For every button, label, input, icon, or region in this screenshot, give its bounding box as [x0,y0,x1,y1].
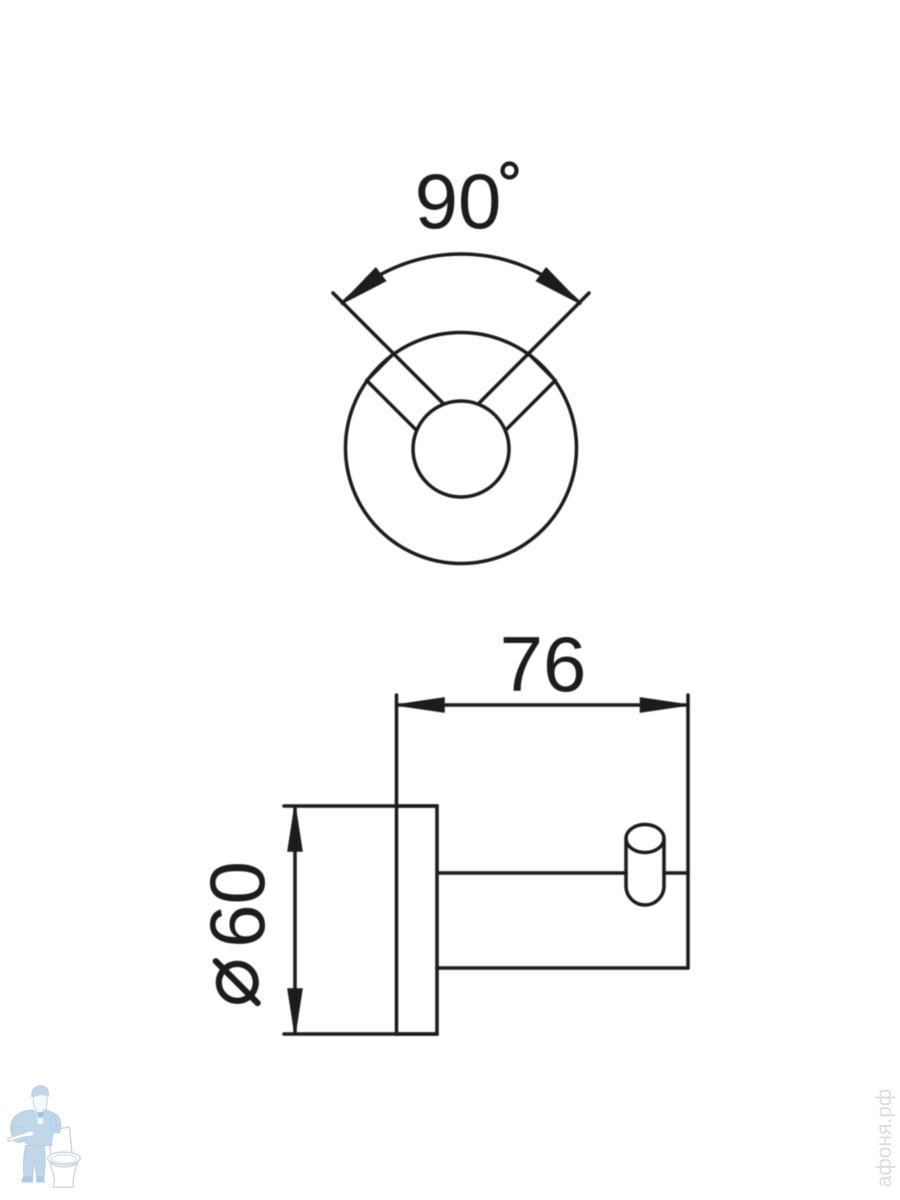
arm top edge right of peg [664,871,688,875]
left arc arrowhead [342,268,385,303]
wall plate rectangle [397,806,438,1034]
left arm sleeve [12,1127,28,1142]
inner circle [413,401,509,497]
arm bottom edge [437,966,688,970]
d60 top arrowhead [288,806,302,851]
right boot [36,1176,45,1183]
svg-text:76: 76 [500,620,587,708]
bowtie [37,1112,44,1118]
76 dimension line [397,703,689,707]
toilet bowl rim / seat [48,1152,81,1165]
outer circle [346,333,577,564]
top extension line (d60) [284,804,437,808]
90-degree dimension arc [342,254,580,303]
degree ring [503,164,517,178]
wrench in hand [8,1131,35,1142]
arm top edge left of peg [437,871,626,875]
bottom extension line (d60) [284,1032,437,1036]
right arm resting on tank [50,1116,57,1131]
right arm upper edge + extension line [479,293,589,403]
right arm end cap [529,354,556,381]
left arm upper edge + extension line [333,293,443,403]
plumber face [33,1095,47,1112]
d60 diameter symbol circle [219,964,256,1001]
svg-text:60: 60 [193,861,281,948]
peg body [626,839,664,906]
left arm lower edge [367,381,417,431]
plumber cap [32,1086,49,1097]
76 left extension line (plate left edge up) [395,695,399,806]
legs [24,1146,46,1177]
right extension line / hook right edge [686,695,690,968]
right arm lower edge [506,381,556,431]
d60 dimension line [293,806,297,1034]
toilet body/base [50,1163,78,1188]
d60 diameter symbol slash [216,961,258,1003]
toilet tank [49,1127,73,1157]
right arc arrowhead [537,268,580,303]
plumber jacket/body [11,1110,61,1146]
d60 bottom arrowhead [288,989,302,1034]
shirt [37,1111,44,1125]
svg-text:афоня.рф: афоня.рф [873,1089,896,1187]
svg-text:90: 90 [415,157,502,245]
76 left arrowhead [397,698,445,712]
toilet seat inner ring [52,1155,77,1163]
76 right arrowhead [641,698,689,712]
peg top ellipse [626,825,664,853]
left arm end cap [367,354,394,381]
left boot [22,1176,34,1183]
